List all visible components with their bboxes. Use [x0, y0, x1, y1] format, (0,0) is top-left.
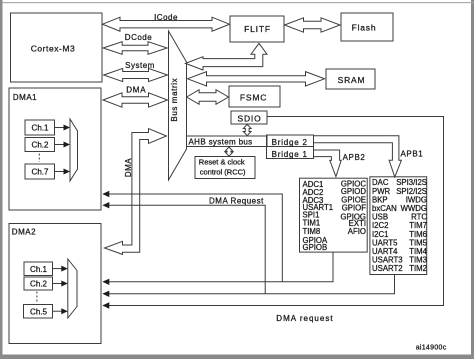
svg-text:GPIOB: GPIOB — [303, 243, 328, 252]
svg-text:USART2: USART2 — [372, 264, 403, 273]
wire APB2 bottom to DMA2 — [109, 252, 333, 282]
wire branch junction to DMA1 request line 2 — [109, 205, 265, 294]
page edge bands — [0, 0, 3, 359]
DMA2 Ch.1 box — [24, 262, 53, 276]
APB2 peripheral list — [303, 179, 367, 252]
DMA2 Ch.5 box — [24, 305, 53, 319]
arrowhead DMA request into DMA1 line 1 — [102, 191, 109, 197]
DMA1 Ch.2 box — [25, 138, 55, 152]
svg-text:TIM1: TIM1 — [303, 218, 321, 227]
FSMC box — [229, 86, 280, 107]
svg-text:DMA: DMA — [124, 158, 133, 177]
svg-text:ai14900c: ai14900c — [416, 345, 447, 352]
svg-text:DCode: DCode — [125, 33, 152, 42]
DMA1 Ch.7 box — [25, 164, 55, 179]
arrowhead DMA request into DMA2 line A — [102, 279, 109, 285]
APB1 peripherals box — [370, 177, 427, 275]
wire Ch.5 to mux DMA2 — [53, 310, 63, 312]
ICode bus double arrow — [103, 17, 230, 31]
svg-text:AFIO: AFIO — [348, 227, 366, 236]
Bridge 2 box — [267, 135, 314, 147]
svg-text:FLITF: FLITF — [244, 24, 271, 34]
FLITF box — [230, 16, 284, 42]
svg-text:ICode: ICode — [154, 13, 178, 22]
wire branch junction to DMA1 request line 1 — [109, 194, 282, 282]
APB2 peripherals box — [300, 178, 368, 252]
DMA2 Ch.2 box — [24, 277, 53, 290]
svg-text:Reset & clock: Reset & clock — [199, 158, 245, 167]
arrowhead DMA request into DMA2 line B — [102, 291, 109, 297]
bus matrix to DMA2 bent pipe double arrow — [105, 129, 167, 255]
arrowhead Ch.5 DMA2 — [61, 308, 68, 314]
svg-text:Bus matrix: Bus matrix — [170, 78, 179, 122]
FSMC double arrow — [187, 90, 229, 105]
svg-text:DMA Request: DMA Request — [209, 196, 264, 205]
SDIO box — [231, 111, 267, 124]
wire SDIO right around to DMA2 — [109, 117, 444, 306]
svg-text:TIM8: TIM8 — [303, 227, 321, 236]
wire APB1 bottom to DMA2 — [109, 275, 395, 294]
svg-text:DMA1: DMA1 — [13, 93, 37, 102]
svg-text:System: System — [125, 61, 155, 70]
svg-text:TIM2: TIM2 — [409, 264, 427, 273]
svg-text:Flash: Flash — [352, 23, 377, 33]
wire Ch.1 to mux DMA1 — [55, 127, 65, 129]
svg-text:APB1: APB1 — [401, 150, 424, 159]
DMA bus double arrow (DMA1 to bus matrix) — [103, 93, 168, 107]
dashed link DMA2 channels — [36, 292, 38, 304]
DMA2 box — [9, 224, 101, 344]
wire Ch.2 to mux DMA1 — [55, 144, 65, 146]
Reset and clock control RCC box — [195, 157, 255, 179]
svg-text:Bridge 1: Bridge 1 — [272, 150, 308, 159]
wires: DMA request lines — [37, 117, 444, 312]
arrowhead Ch.7 DMA1 — [64, 169, 71, 175]
wire Ch.7 to mux DMA1 — [55, 171, 65, 173]
arrowhead Ch.1 DMA1 — [64, 125, 71, 131]
svg-text:DMA2: DMA2 — [12, 228, 36, 237]
SDIO to AHB small double arrow — [243, 124, 251, 135]
SRAM box — [326, 69, 375, 89]
svg-text:Bridge 2: Bridge 2 — [272, 138, 308, 147]
svg-text:Ch.7: Ch.7 — [32, 168, 49, 177]
arrowhead DMA request into DMA2 line C — [102, 302, 109, 308]
svg-text:APB2: APB2 — [343, 153, 366, 162]
System bus double arrow — [104, 68, 168, 81]
svg-text:control (RCC): control (RCC) — [200, 168, 246, 177]
svg-text:SRAM: SRAM — [338, 75, 366, 85]
svg-text:Ch.2: Ch.2 — [32, 141, 49, 150]
svg-text:FSMC: FSMC — [240, 93, 267, 103]
svg-text:Ch.5: Ch.5 — [30, 307, 47, 316]
Flash box — [341, 13, 393, 41]
svg-text:DMA: DMA — [126, 86, 146, 95]
SRAM double arrow — [188, 72, 325, 86]
Cortex-M3 box — [11, 13, 103, 82]
svg-text:Ch.1: Ch.1 — [32, 124, 49, 133]
svg-text:DMA request: DMA request — [276, 314, 333, 323]
Bridge 1 box — [267, 147, 314, 159]
APB1 peripheral list — [372, 178, 428, 273]
Bridge1 to APB2 pipe arrow — [314, 150, 342, 177]
svg-text:Cortex-M3: Cortex-M3 — [31, 44, 76, 54]
FLITF-Flash double arrow — [285, 18, 341, 32]
svg-text:Ch.1: Ch.1 — [30, 265, 47, 274]
wire Ch.1 to mux DMA2 — [53, 268, 63, 270]
arrowhead Ch.1 DMA2 — [61, 266, 68, 272]
DCode bus double arrow — [103, 42, 167, 55]
DMA1 channel mux — [70, 119, 78, 181]
svg-text:SDIO: SDIO — [238, 114, 262, 124]
arrowhead Ch.2 DMA2 — [61, 281, 68, 287]
Bridge2 to APB1 pipe arrow — [314, 136, 402, 177]
DMA1 box — [9, 88, 101, 210]
svg-text:Ch.2: Ch.2 — [30, 280, 47, 289]
DMA1 Ch.1 box — [25, 120, 55, 135]
svg-text:AHB system bus: AHB system bus — [189, 138, 253, 147]
AHB system bus box — [187, 136, 268, 147]
FLITF to bus matrix L-pipe arrow — [185, 43, 267, 70]
DMA2 channel mux — [68, 259, 77, 318]
arrowhead DMA request into DMA1 line 2 — [102, 202, 109, 208]
dashed link DMA1 channels — [38, 154, 40, 163]
AHB to RCC small double arrow — [225, 147, 233, 156]
arrowhead Ch.2 DMA1 — [64, 142, 71, 148]
wire Ch.2 to mux DMA2 — [53, 283, 63, 285]
bus matrix — [169, 31, 187, 180]
